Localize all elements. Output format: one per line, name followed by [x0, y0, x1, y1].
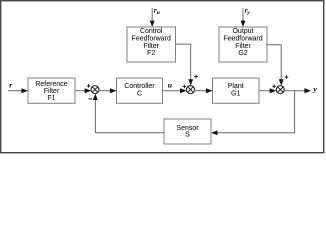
- wire: r input into F1: [8, 88, 28, 93]
- wire: junction 3 to output y: [284, 88, 311, 93]
- svg-text:u: u: [168, 80, 173, 89]
- wire: Controller to junction 2: [163, 88, 187, 93]
- svg-text:Feedforward: Feedforward: [223, 35, 262, 42]
- svg-text:Controller: Controller: [124, 83, 155, 90]
- svg-text:Reference: Reference: [35, 81, 67, 88]
- wire: Sensor output to junction 1 bottom: [93, 94, 164, 133]
- plus sign at junction 3 top input: [285, 75, 289, 79]
- svg-text:Output: Output: [232, 28, 253, 35]
- svg-text:u: u: [157, 10, 160, 16]
- plus sign at junction 1 left input: [87, 84, 91, 88]
- wire: junction 1 to Controller: [99, 88, 117, 93]
- summing junction 1: [91, 86, 99, 94]
- plus sign at junction 3 left input: [272, 85, 276, 89]
- plus sign at junction 2 left input: [183, 85, 187, 89]
- block F1 Reference Filter: [28, 78, 75, 103]
- wire: feedback branch down from output line to Sensor: [211, 91, 295, 136]
- wire: junction 2 to Plant: [194, 88, 212, 93]
- minus sign at junction 1 bottom input: [89, 98, 93, 100]
- svg-text:F1: F1: [47, 95, 55, 102]
- outer border frame: [1, 1, 324, 153]
- wire: F1 to junction 1: [75, 88, 91, 93]
- wire: r_y input arrow into G2 top: [241, 8, 246, 27]
- svg-text:Feedforward: Feedforward: [132, 35, 171, 42]
- wire: r_u input arrow into F2 top: [150, 8, 155, 27]
- summing junction 2: [186, 86, 194, 94]
- svg-text:y: y: [312, 84, 317, 93]
- svg-text:Filter: Filter: [44, 88, 60, 95]
- block G2 Output Feedforward Filter: [219, 27, 267, 62]
- svg-text:Control: Control: [140, 28, 163, 35]
- wire: F2 output down into junction 2: [176, 44, 194, 86]
- wire: Plant to junction 3: [259, 88, 276, 93]
- plus sign at junction 2 top input: [194, 75, 198, 79]
- block G1 Plant: [213, 78, 260, 103]
- svg-text:F2: F2: [147, 50, 155, 57]
- svg-text:C: C: [137, 90, 142, 97]
- svg-text:G1: G1: [231, 90, 240, 97]
- block C Controller: [117, 78, 163, 103]
- svg-text:Filter: Filter: [235, 43, 251, 50]
- svg-text:Filter: Filter: [143, 43, 159, 50]
- svg-text:G2: G2: [238, 50, 247, 57]
- svg-text:S: S: [185, 132, 190, 139]
- summing junction 3: [276, 86, 284, 94]
- block F2 Control Feedforward Filter: [127, 27, 176, 62]
- svg-text:y: y: [246, 10, 250, 16]
- svg-text:Plant: Plant: [228, 83, 244, 90]
- block S Sensor: [164, 119, 211, 144]
- wire: G2 output down into junction 3: [266, 45, 283, 86]
